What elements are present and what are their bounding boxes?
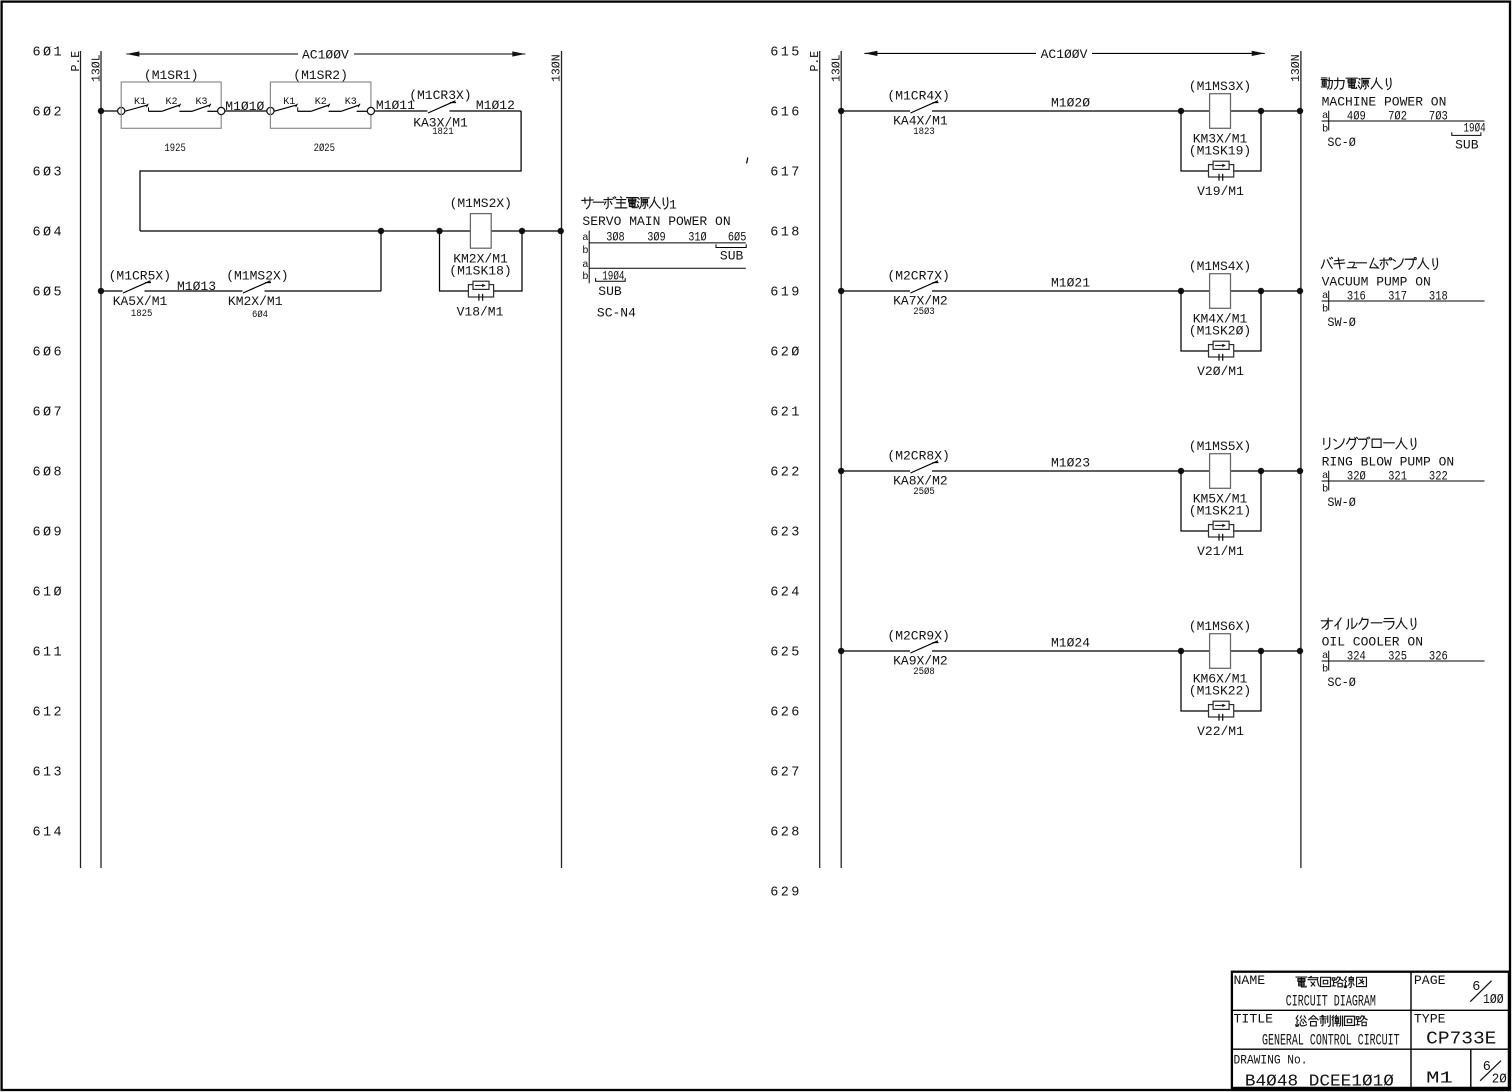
surge suppressor V18/M1: [457, 281, 504, 319]
svg-text:623: 623: [770, 525, 802, 540]
annotation Japanese title for MACHINE POWER ON: [1321, 78, 1391, 90]
svg-text:(M1MS2X): (M1MS2X): [226, 268, 288, 283]
svg-text:a: a: [1322, 470, 1328, 482]
cross reference table servo: row b: [582, 245, 588, 257]
svg-text:6Ø8: 6Ø8: [33, 465, 65, 480]
terminal circle M1SR2 right: [367, 107, 374, 114]
svg-text:614: 614: [33, 825, 65, 840]
svg-text:2Ø25: 2Ø25: [314, 143, 336, 155]
wire rung 602 to corner: [450, 110, 522, 112]
title block TYPE cell CP733E: [1414, 1012, 1496, 1050]
annotation Japanese title for RING BLOW PUMP ON: [1324, 437, 1416, 449]
svg-text:RING BLOW PUMP ON: RING BLOW PUMP ON: [1322, 454, 1455, 469]
svg-text:618: 618: [770, 225, 802, 240]
svg-text:b: b: [1322, 484, 1328, 496]
svg-text:627: 627: [770, 765, 802, 780]
junction dot rung 604 bypass left: [436, 228, 442, 234]
svg-text:6Ø6: 6Ø6: [33, 345, 65, 360]
svg-text:612: 612: [33, 705, 65, 720]
svg-text:1925: 1925: [164, 143, 186, 155]
svg-text:(M1SK21): (M1SK21): [1189, 503, 1251, 518]
svg-text:a: a: [1322, 650, 1328, 662]
cross reference table servo: row a contacts: [582, 230, 746, 284]
svg-text:613: 613: [33, 765, 65, 780]
junction dot rung 619 at 130N: [1297, 288, 1303, 294]
junction dot rung 604 / 605 branch: [378, 228, 384, 234]
junction dot rung 625 at 130L: [838, 648, 844, 654]
wire rung 602 under M1010: [225, 110, 267, 112]
svg-text:DRAWING No.: DRAWING No.: [1234, 1052, 1308, 1067]
junction dot rung 616 at 130L: [838, 108, 844, 114]
svg-text:M1Ø2Ø: M1Ø2Ø: [1051, 96, 1090, 111]
svg-text:K1: K1: [134, 97, 146, 108]
relay contact (M2CR7X) KA7X/M2: [887, 268, 949, 318]
wire rung 605 from 130L rail: [101, 290, 123, 292]
svg-text:SUB: SUB: [598, 284, 622, 299]
svg-text:b: b: [1322, 664, 1328, 676]
contactor coil KM3X/M1 (M1MS3X): [1189, 79, 1251, 158]
wire from rung 602 down and across rung 603 to rung 604: [140, 111, 521, 231]
svg-text:6Ø5: 6Ø5: [33, 285, 65, 300]
svg-text:626: 626: [770, 705, 802, 720]
svg-text:6Ø4: 6Ø4: [33, 225, 65, 240]
relay contact (M1CR4X) KA4X/M1: [887, 88, 949, 138]
junction dot rung 616 bypass left: [1178, 108, 1184, 114]
svg-text:625: 625: [770, 645, 802, 660]
wire rung 619 from 130L rail: [841, 290, 1301, 292]
svg-text:13ØL: 13ØL: [831, 54, 844, 82]
title block title Japanese GENERAL CONTROL CIRCUIT: [1296, 1015, 1368, 1026]
svg-text:CIRCUIT DIAGRAM: CIRCUIT DIAGRAM: [1286, 993, 1376, 1011]
stray tick mark: [747, 158, 748, 164]
wire rung 622 from 130L rail: [841, 470, 1301, 472]
terminal circle M1SR1 right: [218, 107, 225, 114]
cross reference row a for MACHINE POWER ON: [1322, 108, 1485, 130]
svg-text:(M1SR2): (M1SR2): [293, 68, 348, 83]
junction dot rung 616 bypass right: [1258, 108, 1264, 114]
junction dot rung 625 bypass left: [1178, 648, 1184, 654]
rail P.E left half: [70, 51, 83, 868]
svg-text:(M1MS6X): (M1MS6X): [1189, 619, 1251, 634]
wire rung 605 to rung 604 junction: [265, 231, 382, 291]
auxiliary contact KM2X/M1 (M1MS2X) on rung 605: [226, 268, 288, 321]
junction dot rung 619 at 130L: [838, 288, 844, 294]
contact K3 of M1SR2: [341, 97, 367, 111]
svg-text:M1Ø1Ø: M1Ø1Ø: [225, 99, 264, 114]
svg-text:1ØØ: 1ØØ: [1483, 992, 1504, 1008]
svg-text:(M1SK22): (M1SK22): [1189, 683, 1251, 698]
reference 1904 with SUB bracket: [1452, 120, 1486, 152]
svg-text:(M1SK2Ø): (M1SK2Ø): [1189, 323, 1251, 338]
svg-text:M1Ø21: M1Ø21: [1051, 276, 1090, 291]
svg-text:a: a: [1322, 290, 1328, 302]
cross reference row a for VACUUM PUMP ON: [1322, 288, 1485, 310]
svg-text:1821: 1821: [432, 127, 454, 138]
svg-text:OIL COOLER ON: OIL COOLER ON: [1322, 634, 1423, 649]
svg-text:K1: K1: [283, 97, 295, 108]
svg-text:25Ø3: 25Ø3: [913, 306, 935, 318]
svg-text:M1: M1: [1426, 1069, 1453, 1088]
contactor coil KM2X/M1 (M1MS2X): [449, 196, 512, 278]
svg-text:(M2CR8X): (M2CR8X): [887, 448, 949, 463]
contact K1 of M1SR1: [125, 97, 162, 111]
junction dot rung 616 at 130N: [1297, 108, 1303, 114]
contact M1CR3X KA3X/M1: [409, 88, 471, 138]
rail 130N left half: [551, 51, 564, 868]
svg-text:619: 619: [770, 285, 802, 300]
svg-text:617: 617: [770, 165, 802, 180]
svg-text:616: 616: [770, 105, 802, 120]
cross reference row b for RING BLOW PUMP ON: [1322, 484, 1328, 496]
AC100V supply span arrow right half: [864, 47, 1264, 62]
cross reference table servo: row a2: [582, 259, 746, 271]
wire rung 602 from 130L rail: [101, 110, 118, 112]
terminal circle M1SR2 left: [267, 107, 274, 114]
title block frame: [1232, 972, 1509, 1088]
svg-text:V21/M1: V21/M1: [1197, 544, 1244, 559]
wire rung 605 between contacts: [145, 290, 243, 292]
title block name Japanese CIRCUIT DIAGRAM: [1296, 976, 1367, 987]
junction dot rung 619 bypass left: [1178, 288, 1184, 294]
cross reference row b for OIL COOLER ON: [1322, 664, 1328, 676]
svg-text:AC1ØØV: AC1ØØV: [1041, 47, 1088, 62]
svg-text:VACUUM PUMP ON: VACUUM PUMP ON: [1322, 274, 1431, 289]
svg-text:CP733E: CP733E: [1426, 1030, 1496, 1050]
svg-text:K3: K3: [345, 97, 357, 108]
svg-text:B4Ø48 DCEE1Ø1Ø: B4Ø48 DCEE1Ø1Ø: [1245, 1072, 1394, 1091]
cross reference row b for VACUUM PUMP ON: [1322, 304, 1328, 316]
junction dot rung 622 bypass right: [1258, 468, 1264, 474]
svg-text:31Ø: 31Ø: [688, 230, 707, 245]
surge suppressor V19/M1: [1197, 161, 1244, 199]
svg-text:AC1ØØV: AC1ØØV: [302, 48, 349, 63]
svg-text:621: 621: [770, 405, 802, 420]
svg-text:KA5X/M1: KA5X/M1: [113, 294, 168, 309]
svg-text:1: 1: [669, 198, 677, 213]
svg-text:KM2X/M1: KM2X/M1: [228, 294, 283, 309]
svg-text:a: a: [1322, 110, 1328, 122]
svg-text:2Ø: 2Ø: [1492, 1071, 1507, 1087]
svg-text:25Ø8: 25Ø8: [913, 666, 935, 678]
junction dot rung 604 bypass right: [519, 228, 525, 234]
svg-text:1825: 1825: [131, 309, 153, 320]
surge suppressor V20/M1 bypass wires: [1181, 291, 1261, 351]
svg-text:a: a: [582, 232, 588, 244]
svg-text:TITLE: TITLE: [1234, 1012, 1274, 1027]
title block DRAWING No. cell: [1234, 1052, 1394, 1091]
svg-text:25Ø5: 25Ø5: [913, 486, 935, 498]
junction dot rung 622 at 130N: [1297, 468, 1303, 474]
svg-text:19Ø4: 19Ø4: [1464, 120, 1486, 135]
cross reference row a for RING BLOW PUMP ON: [1322, 468, 1485, 490]
junction dot rung 602 at 130L: [98, 108, 104, 114]
relay contact (M2CR8X) KA8X/M2: [887, 448, 949, 498]
wire rung 604: [140, 230, 562, 232]
svg-text:(M1MS3X): (M1MS3X): [1189, 79, 1251, 94]
svg-text:b: b: [1322, 304, 1328, 316]
svg-text:MACHINE POWER ON: MACHINE POWER ON: [1322, 94, 1447, 109]
svg-text:6Ø9: 6Ø9: [33, 525, 65, 540]
junction dot rung 605 at 130L: [98, 288, 104, 294]
svg-text:(M1MS2X): (M1MS2X): [450, 196, 512, 211]
title block NAME cell: [1234, 973, 1266, 988]
svg-text:a: a: [582, 259, 588, 271]
svg-text:b: b: [582, 245, 588, 257]
surge suppressor V19/M1 bypass wires: [1181, 111, 1261, 171]
svg-text:SW-Ø: SW-Ø: [1327, 315, 1356, 330]
svg-text:SERVO MAIN POWER ON: SERVO MAIN POWER ON: [582, 214, 730, 229]
junction dot rung 625 at 130N: [1297, 648, 1303, 654]
svg-text:NAME: NAME: [1234, 973, 1266, 988]
svg-text:SC-N4: SC-N4: [597, 305, 636, 320]
cross reference row a for OIL COOLER ON: [1322, 648, 1485, 670]
svg-text:M1Ø23: M1Ø23: [1051, 456, 1090, 471]
SUB bracket under 605: [716, 244, 746, 263]
svg-text:13ØN: 13ØN: [551, 54, 564, 82]
svg-text:(M1MS5X): (M1MS5X): [1189, 439, 1251, 454]
svg-text:62Ø: 62Ø: [770, 345, 802, 360]
svg-text:(M1CR5X): (M1CR5X): [109, 268, 171, 283]
wire rung 602 under M1011: [375, 110, 428, 112]
svg-text:GENERAL CONTROL CIRCUIT: GENERAL CONTROL CIRCUIT: [1262, 1032, 1400, 1050]
svg-text:622: 622: [770, 465, 802, 480]
svg-text:3Ø8: 3Ø8: [606, 230, 625, 245]
AC100V supply span arrow left half: [126, 48, 525, 63]
svg-text:K2: K2: [315, 97, 327, 108]
surge suppressor V22/M1 bypass wires: [1181, 651, 1261, 711]
svg-text:M1Ø24: M1Ø24: [1051, 636, 1090, 651]
relay unit box M1SR2: [270, 68, 371, 155]
contactor coil KM6X/M1 (M1MS6X): [1189, 619, 1251, 698]
svg-text:13ØL: 13ØL: [91, 54, 104, 82]
SUB bracket under 1904: [596, 278, 626, 299]
svg-text:6Ø5: 6Ø5: [728, 230, 747, 245]
wire rung 616 from 130L rail: [841, 110, 1301, 112]
svg-text:K3: K3: [195, 97, 207, 108]
surge suppressor V21/M1 bypass wires: [1181, 471, 1261, 531]
rail 130N right half: [1290, 51, 1303, 868]
svg-text:6Ø7: 6Ø7: [33, 405, 65, 420]
svg-text:SW-Ø: SW-Ø: [1327, 495, 1356, 510]
relay unit box M1SR1: [121, 68, 221, 155]
surge suppressor V21/M1: [1197, 521, 1244, 559]
svg-text:(M1SK18): (M1SK18): [449, 263, 511, 278]
svg-text:(M1CR3X): (M1CR3X): [409, 88, 471, 103]
svg-text:61Ø: 61Ø: [33, 585, 65, 600]
svg-text:b: b: [1322, 124, 1328, 136]
svg-text:611: 611: [33, 645, 65, 660]
rail 130L left half: [91, 51, 104, 868]
surge suppressor V20/M1: [1197, 341, 1244, 379]
svg-text:PAGE: PAGE: [1414, 973, 1446, 988]
svg-text:SUB: SUB: [1455, 137, 1479, 152]
svg-text:628: 628: [770, 825, 802, 840]
junction dot rung 622 at 130L: [838, 468, 844, 474]
svg-text:K2: K2: [165, 97, 177, 108]
annotation Japanese title for OIL COOLER ON: [1321, 618, 1416, 630]
rail 130L right half: [831, 51, 844, 868]
svg-text:V19/M1: V19/M1: [1197, 184, 1244, 199]
svg-text:(M1MS4X): (M1MS4X): [1189, 259, 1251, 274]
junction dot rung 625 bypass right: [1258, 648, 1264, 654]
cross reference row b for MACHINE POWER ON: [1322, 124, 1328, 136]
svg-text:SC-Ø: SC-Ø: [1327, 135, 1356, 150]
relay contact (M2CR9X) KA9X/M2: [887, 628, 949, 678]
svg-text:V22/M1: V22/M1: [1197, 724, 1244, 739]
wire rung 625 from 130L rail: [841, 650, 1301, 652]
junction dot rung 622 bypass left: [1178, 468, 1184, 474]
svg-text:624: 624: [770, 585, 802, 600]
contact K2 of M1SR2: [311, 97, 341, 111]
svg-text:(M1CR4X): (M1CR4X): [887, 88, 949, 103]
svg-text:P.E: P.E: [70, 51, 83, 72]
svg-text:(M2CR9X): (M2CR9X): [887, 628, 949, 643]
svg-text:(M1SR1): (M1SR1): [144, 68, 199, 83]
surge suppressor V18/M1 bypass wires: [440, 231, 523, 291]
contactor coil KM4X/M1 (M1MS4X): [1189, 259, 1251, 338]
junction dot rung 604 at 130N: [558, 228, 564, 234]
annotation servo main power Japanese: [582, 197, 677, 213]
svg-text:SUB: SUB: [720, 249, 744, 264]
annotation Japanese title for VACUUM PUMP ON: [1321, 257, 1437, 269]
contact K1 of M1SR2: [274, 97, 311, 111]
svg-text:TYPE: TYPE: [1414, 1012, 1446, 1027]
svg-text:(M2CR7X): (M2CR7X): [887, 268, 949, 283]
svg-text:SC-Ø: SC-Ø: [1327, 675, 1356, 690]
svg-text:P.E: P.E: [809, 51, 822, 72]
svg-text:6Ø3: 6Ø3: [33, 165, 65, 180]
contact M1CR5X KA5X/M1: [109, 268, 171, 320]
junction dot rung 619 bypass right: [1258, 288, 1264, 294]
terminal circle M1SR1 left: [118, 107, 125, 114]
surge suppressor V22/M1: [1197, 701, 1244, 739]
svg-text:b: b: [582, 271, 588, 283]
svg-text:13ØN: 13ØN: [1290, 54, 1303, 82]
contact K3 of M1SR1: [192, 97, 217, 111]
title block PAGE cell 6/100: [1414, 973, 1504, 1008]
svg-text:6Ø1: 6Ø1: [33, 45, 65, 60]
contact K2 of M1SR1: [162, 97, 192, 111]
svg-text:V2Ø/M1: V2Ø/M1: [1197, 364, 1244, 379]
svg-text:1823: 1823: [913, 127, 935, 138]
svg-text:615: 615: [770, 45, 802, 60]
rail P.E right half: [809, 51, 822, 868]
svg-text:629: 629: [770, 885, 802, 900]
contactor coil KM5X/M1 (M1MS5X): [1189, 439, 1251, 518]
svg-text:(M1SK19): (M1SK19): [1189, 143, 1251, 158]
title block sheet 6/20: [1480, 1060, 1507, 1088]
svg-text:V18/M1: V18/M1: [457, 305, 504, 320]
cross reference table servo: row b2 with 1904: [582, 268, 624, 283]
svg-text:6Ø2: 6Ø2: [33, 105, 65, 120]
svg-text:3Ø9: 3Ø9: [647, 230, 666, 245]
svg-text:6Ø4: 6Ø4: [252, 309, 268, 321]
